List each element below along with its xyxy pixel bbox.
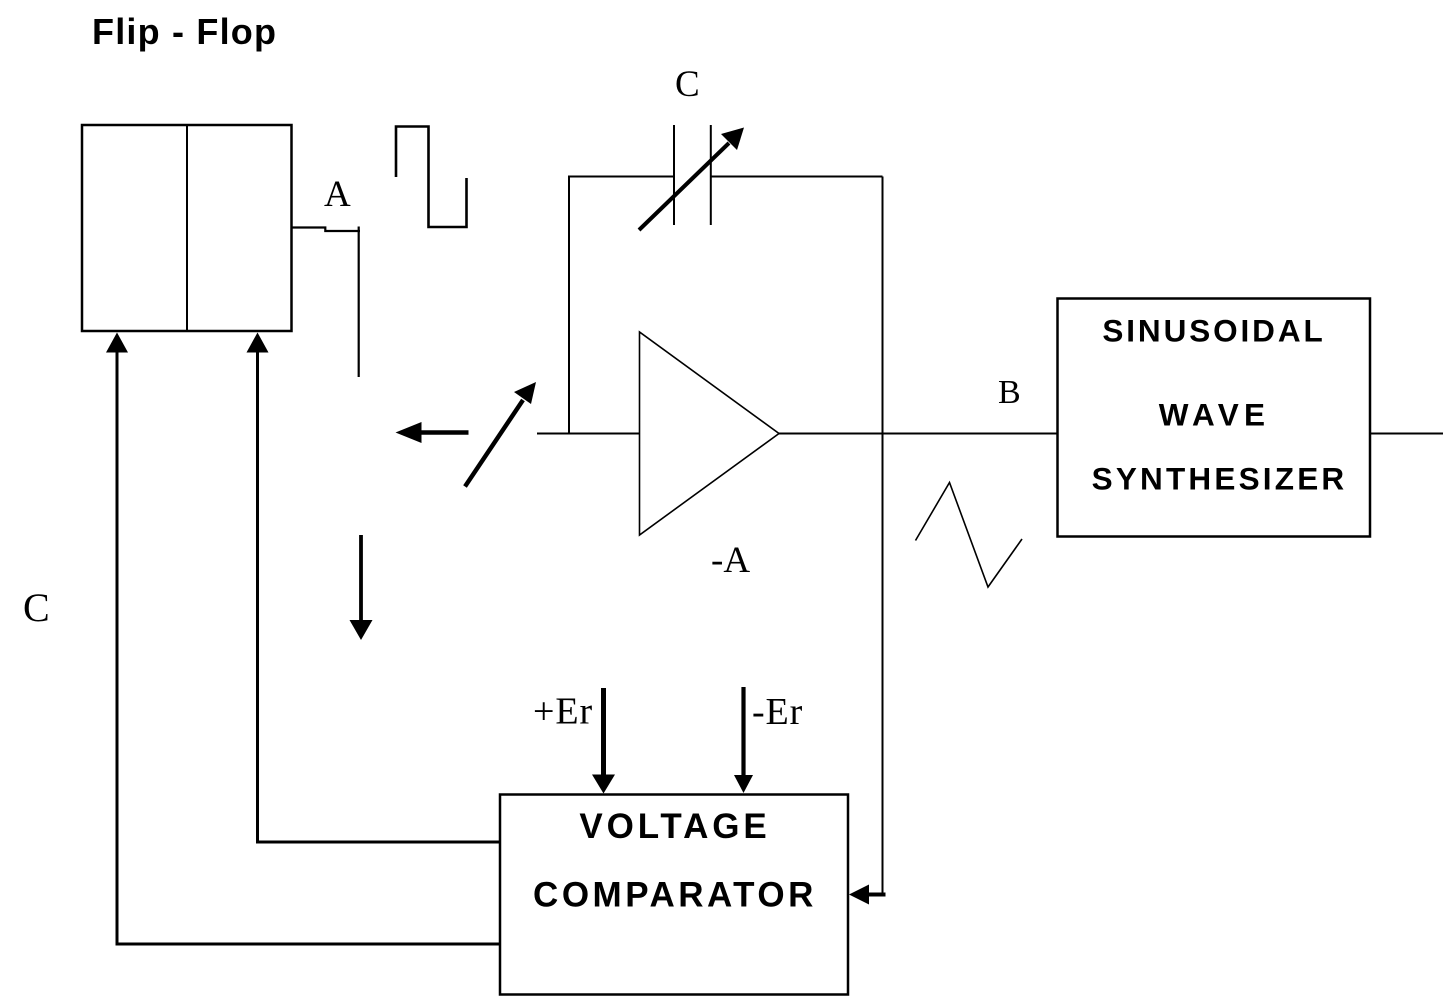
svg-text:VOLTAGE: VOLTAGE — [579, 807, 770, 846]
down arrow below node A — [350, 535, 373, 640]
arrowhead into flip-flop lower — [106, 333, 128, 353]
wire synthesizer output — [1370, 433, 1443, 435]
wire comparator to flip-flop upper — [258, 350, 501, 842]
wire feedback top right — [711, 176, 883, 178]
svg-text:B: B — [998, 374, 1021, 411]
+Er input arrow — [592, 688, 615, 794]
svg-text:C: C — [675, 64, 700, 105]
wire feedback top left — [568, 176, 674, 178]
svg-text:A: A — [324, 174, 351, 215]
flip-flop box — [82, 125, 292, 331]
voltage comparator box — [500, 795, 848, 995]
flip-flop divider — [186, 125, 188, 331]
wire integrator input — [537, 433, 640, 435]
svg-text:-A: -A — [711, 540, 750, 581]
capacitor C left plate — [673, 125, 675, 225]
op-amp integrator triangle — [640, 332, 780, 535]
wire feedback right vertical — [882, 177, 884, 895]
svg-text:COMPARATOR: COMPARATOR — [533, 876, 817, 915]
wire comparator to flip-flop lower — [117, 350, 500, 944]
wire from flip-flop output A — [292, 227, 361, 378]
capacitor C right plate — [710, 125, 712, 225]
wire op-amp output to synthesizer — [779, 433, 1058, 435]
sinusoidal wave synthesizer box — [1058, 299, 1371, 537]
arrowhead into flip-flop upper — [247, 333, 269, 353]
wire feedback left vertical — [568, 177, 570, 434]
svg-text:WAVE: WAVE — [1159, 397, 1271, 433]
svg-text:+Er: +Er — [533, 691, 593, 733]
capacitor adjustment arrow — [639, 128, 744, 231]
svg-text:-Er: -Er — [752, 691, 803, 733]
switch blade arrow — [465, 382, 536, 487]
svg-text:SYNTHESIZER: SYNTHESIZER — [1092, 461, 1348, 497]
svg-text:Flip - Flop: Flip - Flop — [92, 11, 277, 52]
-Er input arrow — [734, 687, 753, 793]
svg-text:SINUSOIDAL: SINUSOIDAL — [1102, 313, 1325, 349]
switch left arrow — [396, 422, 469, 443]
svg-text:C: C — [23, 585, 50, 630]
wire comparator feedback input arrow — [849, 885, 886, 905]
triangle wave symbol — [916, 483, 1023, 588]
square wave symbol — [396, 127, 467, 228]
